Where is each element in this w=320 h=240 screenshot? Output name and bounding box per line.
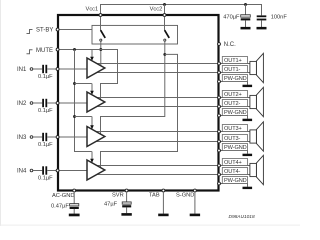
wire IN2 pin to amp A2 [58,102,87,104]
capacitor C2 0.1uF input cap [42,99,47,107]
svg-text:IN3: IN3 [17,135,27,141]
capacitor C5 bottom plate [70,207,79,209]
capacitor C7 bottom plate [241,18,251,20]
switch SW1 lever [101,30,106,38]
capacitor C6 47uF top plate [122,202,131,204]
pin OUT3+ [218,130,221,133]
pin label box OUT2+ [222,91,247,98]
wire SVR to C6 [126,192,128,202]
pin IN3 [56,136,59,139]
ground below TAB [158,214,168,217]
svg-text:N.C.: N.C. [224,42,236,48]
wire MUTE line with zigzag into amp A2 [58,50,118,100]
wire cap to IN3 pin [47,136,58,138]
node rail dot row2 [73,82,76,85]
pin OUT2- [218,105,221,108]
capacitor C3 0.1uF input cap [42,133,47,141]
pin IN1 [56,68,59,71]
wire control stub into amp A1 [91,50,93,58]
op-amp A2 power amplifier [87,92,105,112]
wire AC-GND to C5 [73,192,75,203]
svg-text:PW-GND: PW-GND [224,145,247,151]
wire TAB to ground [162,192,164,214]
speaker SP3 [250,122,264,151]
pin label box OUT1- [222,66,247,73]
svg-text:OUT1+: OUT1+ [224,58,242,64]
svg-text:Vcc2: Vcc2 [150,7,163,13]
pin label box OUT1+ [222,57,247,64]
pin label box OUT4- [222,168,247,175]
switch SW2 contact circle [164,39,166,41]
pin PW-GND row 2 [218,114,221,117]
wire OUT3+ from amp A3 to speaker [95,131,250,133]
capacitor C8 bottom plate [257,19,267,21]
wire SW2 rail down then left into amp A3 [101,41,165,133]
pin Vcc2 [163,14,166,17]
svg-text:OUT4+: OUT4+ [224,160,242,166]
wire C6 to ground [126,207,128,213]
arrow into amp A4 [90,159,94,163]
svg-text:470µF: 470µF [223,14,240,20]
wire OUT2+ from amp A2 to speaker [95,97,250,99]
node 470uF junction dot [244,3,247,6]
node Vcc2 junction dot [163,3,166,6]
pin label box PW-GND [222,177,247,184]
pin label box OUT4+ [222,159,247,166]
op-amp A3 power amplifier [87,127,105,147]
wire control stub into amp A3 [91,117,93,126]
pin label box OUT3+ [222,125,247,132]
speaker SP2 [250,87,264,116]
svg-text:OUT4-: OUT4- [224,169,241,175]
pin label box PW-GND [222,75,247,82]
pin label box PW-GND [222,109,247,116]
svg-text:Vcc1: Vcc1 [86,7,99,13]
wire IN1 pin to amp A1 [58,68,87,70]
node IN3 input terminal [30,136,33,139]
wire 470uF cap drop [245,5,247,15]
wire SW1 contact down to amp A1 [100,41,102,65]
svg-text:PW-GND: PW-GND [224,178,247,184]
pin TAB [162,189,165,192]
pin PW-GND row 4 [218,182,221,185]
wire rail branch row3 [75,116,92,118]
wire IN4 terminal to cap [33,170,42,172]
pin MUTE [56,48,59,51]
svg-text:OUT3-: OUT3- [224,136,241,142]
wire top supply rail [101,5,262,16]
wire OUT3- from amp A3 to speaker [96,141,251,143]
wire OUT4- from amp A4 to speaker [96,174,251,176]
wire mute vertical rail with branch to amp A4 arrow [75,50,92,152]
wire SW2 branch rail down then left into amp A4 [101,54,178,167]
ground of PW-GND row 4 [243,187,253,189]
wire Vcc2 pin drop [164,5,166,14]
wire IN2 terminal to cap [33,102,42,104]
wire control stub into amp A2 [91,84,93,92]
svg-text:IN4: IN4 [17,169,27,175]
svg-text:OUT2+: OUT2+ [224,92,242,98]
node IN4 input terminal [30,169,33,172]
ground of PW-GND row 3 [243,154,253,156]
pin OUT4- [218,173,221,176]
pin SVR [125,189,128,192]
pin IN2 [56,102,59,105]
svg-text:S-GND: S-GND [176,193,194,199]
svg-text:PW-GND: PW-GND [224,76,247,82]
ground below S-GND [190,214,200,217]
capacitor C5 0.47uF top plate [70,204,79,206]
pin OUT4+ [218,164,221,167]
svg-text:ST-BY: ST-BY [36,28,53,34]
svg-text:TAB: TAB [149,193,160,199]
svg-text:OUT2-: OUT2- [224,101,241,107]
ground below C5 [69,214,80,217]
svg-text:AC-GND: AC-GND [52,193,74,199]
svg-text:0.1µF: 0.1µF [38,176,53,182]
ground of PW-GND row 2 [243,119,253,121]
capacitor C1 0.1uF input cap [42,65,47,73]
node SW1/MUTE junction dot [99,48,102,51]
pin OUT3- [218,140,221,143]
pin OUT1- [218,71,221,74]
svg-text:47µF: 47µF [104,201,118,207]
ground of PW-GND row 1 [243,85,253,87]
wire ST-BY pin to switch box [58,29,92,31]
switch SW1 contact circle [100,39,102,41]
wire OUT1- from amp A1 to speaker [96,72,251,74]
pin label box PW-GND [222,144,247,151]
wire cap to IN4 pin [47,170,58,172]
wire OUT1+ from amp A1 to speaker [95,63,250,65]
arrow into amp A1 [90,57,94,61]
capacitor C4 0.1uF input cap [42,166,47,174]
op-amp A4 power amplifier [87,160,105,180]
svg-text:0.47µF: 0.47µF [51,204,69,210]
arrow into amp A3 [90,125,94,129]
wire cap to IN1 pin [47,68,58,70]
scan edge artifact left [0,0,1,226]
wire PW-GND row 2 [218,116,248,119]
pin Vcc1 [99,14,102,17]
wire C7 to ground [245,20,247,27]
pin AC-GND [73,189,76,192]
wire PW-GND row 3 [218,151,248,154]
wire OUT2- from amp A2 to speaker [96,106,251,108]
svg-text:MUTE: MUTE [36,48,53,54]
wire OUT4+ from amp A4 to speaker [95,165,250,167]
wire C8 to ground [261,20,263,27]
svg-text:OUT3+: OUT3+ [224,126,242,132]
node MUTE rail junction dot [73,48,76,51]
wire C5 to ground [73,209,75,214]
pin S-GND [193,189,196,192]
pin label box OUT3- [222,135,247,142]
capacitor C8 100nF top plate [257,15,267,17]
switch SW2 lever [165,30,170,38]
svg-text:OUT1-: OUT1- [224,67,241,73]
capacitor C7 470uF electrolytic top plate [241,15,251,18]
wire S-GND to ground [194,192,196,214]
pin PW-GND row 3 [218,149,221,152]
svg-text:PW-GND: PW-GND [224,110,247,116]
svg-text:IN1: IN1 [17,67,27,73]
wire PW-GND row 4 [218,184,248,187]
pin IN4 [56,169,59,172]
wire IN1 terminal to cap [33,68,42,70]
pin N.C. [218,43,221,46]
svg-text:0.1µF: 0.1µF [38,142,53,148]
arrow into amp A2 [90,91,94,95]
wire IN4 pin to amp A4 [58,170,87,172]
speaker SP1 [250,53,264,82]
ground below C6 [121,213,131,216]
wire rail branch row2 [75,83,92,85]
pin OUT2+ [218,96,221,99]
wire IN3 pin to amp A3 [58,136,87,138]
svg-text:0.1µF: 0.1µF [38,108,53,114]
ground below C7 [241,27,251,30]
pin ST-BY [56,28,59,31]
standby/mute switch box [92,25,178,44]
wire cap to IN2 pin [47,102,58,104]
wire control stub into amp A4 [91,152,93,160]
wire Vcc2 pin into box [164,17,166,31]
wire Vcc1 pin into box [100,17,102,31]
speaker SP4 [250,155,264,184]
svg-text:D98AU1018: D98AU1018 [229,214,255,220]
pin OUT1+ [218,62,221,65]
svg-text:SVR: SVR [112,193,124,199]
op-amp A1 power amplifier [87,58,105,78]
svg-text:IN2: IN2 [17,101,27,107]
ground below C8 [257,27,267,30]
op-amp IC body outline [58,15,219,191]
pin PW-GND row 1 [218,80,221,83]
node IN1 input terminal [30,68,33,71]
scan edge artifact bottom [0,225,300,226]
node SW2 branch junction dot [163,53,166,56]
svg-text:100nF: 100nF [271,14,288,20]
wire IN3 terminal to cap [33,136,42,138]
pin label box OUT2- [222,100,247,107]
step symbol ST-BY [27,30,33,34]
node rail dot row3 [73,115,76,118]
wire PW-GND row 1 [218,82,248,85]
capacitor C6 bottom plate [122,205,131,207]
node IN2 input terminal [30,102,33,105]
svg-text:0.1µF: 0.1µF [38,74,53,80]
step symbol MUTE [27,50,33,54]
